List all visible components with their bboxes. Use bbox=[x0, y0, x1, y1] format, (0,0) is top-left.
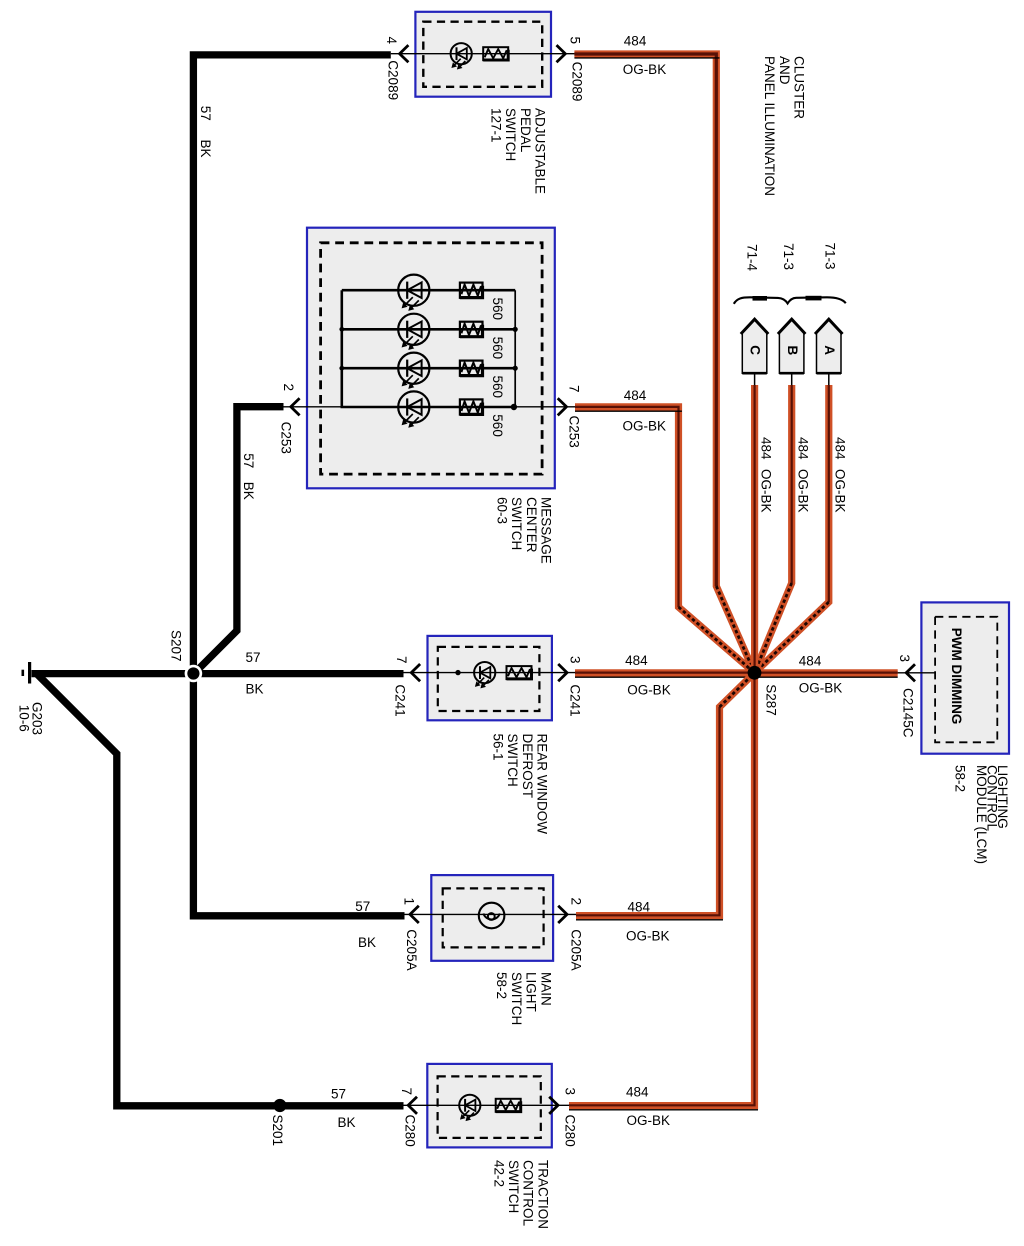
arrow at C2089 pin 4 bbox=[400, 45, 409, 62]
resistor 560 #3 bbox=[460, 361, 483, 376]
resistor 560 #1 bbox=[460, 283, 483, 298]
svg-text:C: C bbox=[748, 345, 763, 355]
svg-text:560: 560 bbox=[490, 414, 505, 437]
wire 484 OG-BK: traction control pin3 right, up into S287 bbox=[569, 673, 758, 1110]
svg-text:484: 484 bbox=[833, 437, 848, 460]
svg-text:BK: BK bbox=[338, 1115, 356, 1130]
svg-text:BK: BK bbox=[246, 682, 264, 697]
message center switch internals bbox=[339, 275, 517, 428]
svg-text:57: 57 bbox=[355, 899, 370, 914]
svg-text:S287: S287 bbox=[763, 684, 778, 716]
wire: thin line through rear defrost switch row bbox=[402, 672, 577, 674]
wire 484 OG-BK: C2089 pin5 across top, down, diagonal into S287 bbox=[574, 54, 754, 673]
svg-text:OG-BK: OG-BK bbox=[759, 469, 774, 513]
svg-text:OG-BK: OG-BK bbox=[796, 469, 811, 513]
wire: thin line through message center switch row bbox=[283, 406, 577, 408]
rear defrost switch junction dot bbox=[455, 670, 460, 675]
svg-text:C2089: C2089 bbox=[386, 60, 401, 100]
connector pentagon A bbox=[815, 319, 843, 373]
arrow at C241 pin 7 bbox=[411, 664, 420, 681]
traction control switch LED bbox=[459, 1095, 480, 1121]
svg-text:3: 3 bbox=[567, 656, 582, 664]
svg-text:MESSAGECENTERSWITCH60-3: MESSAGECENTERSWITCH60-3 bbox=[494, 497, 553, 564]
svg-text:OG-BK: OG-BK bbox=[627, 1113, 671, 1128]
wire 484 OG-BK: connector B down, diagonal into S287 bbox=[755, 385, 792, 673]
svg-text:C280: C280 bbox=[403, 1115, 418, 1147]
branch 2 bbox=[342, 328, 515, 331]
svg-text:484: 484 bbox=[796, 437, 811, 460]
branch 3 bbox=[342, 367, 515, 370]
svg-text:71-4: 71-4 bbox=[744, 244, 759, 272]
adjustable pedal switch LED bbox=[451, 43, 472, 69]
connector pentagon C bbox=[741, 319, 769, 373]
svg-text:3: 3 bbox=[897, 655, 912, 663]
svg-text:OG-BK: OG-BK bbox=[623, 62, 667, 77]
svg-text:C280: C280 bbox=[563, 1115, 578, 1147]
wire 484 OG-BK: rear defrost pin3 to S287 bbox=[575, 673, 755, 678]
main light switch box 58-2 bbox=[431, 875, 553, 961]
right bus junction dots bbox=[513, 327, 518, 332]
svg-text:484: 484 bbox=[799, 654, 822, 669]
wire 484 OG-BK: S287 to C2145C pin3 of LCM bbox=[755, 673, 898, 678]
arrow at C205A pin 1 bbox=[410, 906, 419, 923]
lighting control module (LCM) box 58-2 bbox=[921, 602, 1009, 753]
resistor 560 #2 bbox=[460, 322, 483, 337]
lamp LED 4 bbox=[398, 391, 429, 427]
svg-text:C2145C: C2145C bbox=[900, 688, 915, 738]
lamp LED 2 bbox=[398, 314, 429, 350]
svg-text:OG-BK: OG-BK bbox=[626, 929, 670, 944]
svg-text:7: 7 bbox=[399, 1088, 414, 1096]
traction control switch box 42-2 bbox=[427, 1064, 552, 1148]
wire 484 OG-BK: main light switch pin2 right, up, diagonal into S287 bbox=[576, 673, 755, 920]
arrow at C280 pin 3 bbox=[549, 1097, 558, 1114]
svg-text:BK: BK bbox=[358, 935, 376, 950]
arrow at C2145C pin 3 bbox=[906, 664, 915, 681]
svg-text:MAINLIGHTSWITCH58-2: MAINLIGHTSWITCH58-2 bbox=[494, 972, 553, 1025]
adjustable pedal switch resistor bbox=[483, 47, 508, 60]
wire 484 OG-BK: connector C straight down into S287 bbox=[751, 385, 758, 673]
svg-text:57: 57 bbox=[246, 650, 261, 665]
wire: thin line through main light switch row bbox=[403, 913, 578, 915]
svg-text:LIGHTINGCONTROLMODULE (LCM)58-: LIGHTINGCONTROLMODULE (LCM)58-2 bbox=[953, 765, 1011, 864]
svg-text:10-6: 10-6 bbox=[16, 705, 31, 732]
arrow at C253 pin 7 bbox=[558, 398, 567, 415]
wire 57 BK: C2089 pin4 left, long vertical, corner to main light switch pin1 bbox=[193, 55, 404, 916]
main light switch lamp symbol bbox=[479, 903, 505, 929]
svg-text:REAR WINDOWDEFROSTSWITCH56-1: REAR WINDOWDEFROSTSWITCH56-1 bbox=[490, 734, 549, 835]
svg-text:5: 5 bbox=[568, 37, 583, 45]
svg-text:484: 484 bbox=[624, 34, 647, 49]
ground G203 symbol bbox=[23, 662, 30, 684]
svg-text:484: 484 bbox=[624, 388, 647, 403]
svg-text:57: 57 bbox=[241, 453, 256, 468]
svg-text:C253: C253 bbox=[567, 416, 582, 448]
connector pentagon B bbox=[778, 319, 806, 373]
wire: stub below pentagon A bbox=[828, 373, 830, 386]
left bus bbox=[342, 290, 515, 407]
rear window defrost switch box 56-1 bbox=[428, 636, 552, 720]
arrow at C241 pin 3 bbox=[558, 664, 567, 681]
svg-text:OG-BK: OG-BK bbox=[833, 469, 848, 513]
wire: thin line through adjustable pedal switch row bbox=[391, 53, 576, 55]
svg-text:S207: S207 bbox=[168, 630, 183, 662]
svg-text:7: 7 bbox=[567, 385, 582, 393]
svg-text:2: 2 bbox=[568, 898, 583, 906]
arrow at C253 pin 2 bbox=[291, 398, 300, 415]
svg-text:57: 57 bbox=[331, 1087, 346, 1102]
svg-text:TRACTIONCONTROLSWITCH42-2: TRACTIONCONTROLSWITCH42-2 bbox=[491, 1160, 550, 1229]
wire 484 OG-BK: connector A down, diagonal into S287 bbox=[755, 385, 829, 673]
svg-text:S201: S201 bbox=[270, 1115, 285, 1147]
svg-text:560: 560 bbox=[490, 337, 505, 360]
svg-text:484: 484 bbox=[759, 437, 774, 460]
svg-text:ADJUSTABLEPEDALSWITCH127-1: ADJUSTABLEPEDALSWITCH127-1 bbox=[488, 108, 547, 194]
adjustable pedal switch box 127-1 bbox=[415, 12, 551, 97]
svg-text:PWM DIMMING: PWM DIMMING bbox=[949, 628, 964, 725]
rear defrost switch LED bbox=[474, 662, 495, 688]
rear defrost switch resistor bbox=[507, 666, 532, 679]
lamp LED 1 bbox=[398, 275, 429, 311]
splice S201 bbox=[273, 1099, 286, 1112]
svg-text:484: 484 bbox=[626, 1085, 649, 1100]
splice S287 bbox=[748, 666, 762, 680]
message center switch box 60-3 bbox=[307, 228, 555, 489]
arrow at C280 pin 7 bbox=[408, 1097, 417, 1114]
svg-text:3: 3 bbox=[563, 1088, 578, 1096]
splice S207 bbox=[185, 665, 203, 683]
wire: stub below pentagon C bbox=[754, 373, 756, 386]
brace over connectors A B C bbox=[734, 297, 846, 304]
arrow at C2089 pin 5 bbox=[557, 45, 566, 62]
svg-text:57: 57 bbox=[198, 106, 213, 121]
svg-text:B: B bbox=[785, 346, 800, 356]
branch 1 bbox=[342, 289, 515, 292]
wire: stub below pentagon B bbox=[791, 373, 793, 386]
wire: thin line at C2145C into LCM bbox=[897, 672, 935, 674]
wire 57 BK: ground diagonal down to S201 and traction control pin7 bbox=[38, 675, 404, 1106]
svg-text:7: 7 bbox=[394, 656, 409, 664]
svg-text:OG-BK: OG-BK bbox=[627, 683, 671, 698]
svg-text:2: 2 bbox=[281, 384, 296, 392]
right bus bbox=[514, 290, 516, 407]
svg-text:560: 560 bbox=[490, 298, 505, 321]
svg-text:C205A: C205A bbox=[568, 929, 583, 970]
traction control switch resistor bbox=[496, 1099, 521, 1112]
svg-text:1: 1 bbox=[402, 898, 417, 906]
svg-text:C253: C253 bbox=[279, 422, 294, 454]
svg-text:C205A: C205A bbox=[404, 929, 419, 970]
svg-text:C241: C241 bbox=[567, 684, 582, 716]
svg-text:OG-BK: OG-BK bbox=[623, 419, 667, 434]
wire 57 BK: ground G203 to S207 to rear defrost pin7 bbox=[32, 670, 404, 677]
svg-text:BK: BK bbox=[198, 140, 213, 158]
wire: thin line through traction control switch row bbox=[402, 1104, 570, 1106]
svg-text:OG-BK: OG-BK bbox=[799, 681, 843, 696]
svg-text:560: 560 bbox=[490, 376, 505, 399]
svg-text:71-3: 71-3 bbox=[822, 243, 837, 270]
svg-text:A: A bbox=[822, 345, 837, 355]
svg-text:CLUSTERANDPANEL ILLUMINATION: CLUSTERANDPANEL ILLUMINATION bbox=[762, 56, 806, 196]
svg-text:BK: BK bbox=[241, 482, 256, 500]
resistor 560 #4 bbox=[460, 399, 483, 414]
svg-text:484: 484 bbox=[625, 653, 648, 668]
svg-text:4: 4 bbox=[384, 37, 399, 45]
svg-text:71-3: 71-3 bbox=[781, 243, 796, 270]
lamp LED 3 bbox=[398, 353, 429, 389]
svg-text:C241: C241 bbox=[393, 684, 408, 716]
svg-text:C2089: C2089 bbox=[570, 62, 585, 102]
wire 57 BK: S207 diagonal up to C253 pin2 bbox=[194, 407, 284, 674]
svg-text:484: 484 bbox=[628, 899, 651, 914]
arrow at C205A pin 2 bbox=[558, 906, 567, 923]
wire 484 OG-BK: C253 pin7 right, down, diagonal into S287 bbox=[575, 407, 755, 673]
